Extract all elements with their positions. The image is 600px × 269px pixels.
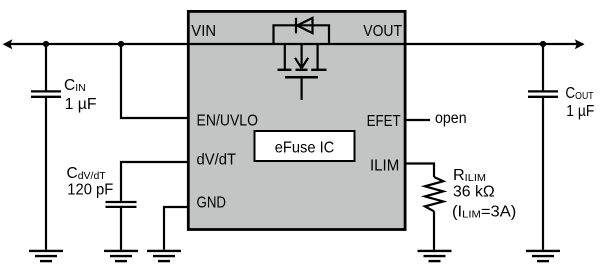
transistor Q1 body contact bar <box>296 69 308 71</box>
transistor Q1 internal FET: body-diode loop wire <box>274 25 330 44</box>
arrow left (input) <box>3 39 13 49</box>
eFuse IC U1 body <box>188 11 405 229</box>
wire C_dV/dT bottom <box>120 208 122 250</box>
resistor R_ILIM <box>425 177 443 211</box>
svg-text:COUT: COUT <box>565 85 593 102</box>
wire C_IN bottom <box>45 98 47 250</box>
wire dV/dT <box>121 162 188 201</box>
svg-text:VOUT: VOUT <box>363 23 402 40</box>
transistor Q1 gate plate <box>285 76 318 79</box>
transistor Q1 drain contact bar <box>278 69 292 71</box>
ground (GND pin) <box>147 251 181 261</box>
svg-text:ILIM: ILIM <box>370 158 399 175</box>
capacitor C_OUT <box>528 90 558 92</box>
svg-text:36 kΩ: 36 kΩ <box>453 184 495 201</box>
wire ILIM pin <box>406 164 434 178</box>
wire EN/UVLO <box>121 44 188 118</box>
IC label box (eFuse IC) <box>255 131 355 161</box>
wire GND pin <box>164 207 188 250</box>
arrow right (output) <box>575 39 585 49</box>
transistor Q1 source contact bar <box>311 69 326 71</box>
svg-text:open: open <box>435 110 467 127</box>
svg-text:CIN: CIN <box>64 77 86 94</box>
node VIN junction (EN/UVLO) <box>118 41 124 47</box>
svg-text:CdV/dT: CdV/dT <box>67 165 107 182</box>
svg-text:GND: GND <box>197 195 227 212</box>
svg-text:EFET: EFET <box>367 113 401 130</box>
ground (C_OUT) <box>526 251 560 261</box>
transistor Q1 source drop <box>317 44 319 70</box>
svg-text:120 pF: 120 pF <box>67 182 113 199</box>
svg-text:dV/dT: dV/dT <box>197 152 237 169</box>
svg-text:VIN: VIN <box>191 23 216 40</box>
svg-text:1 µF: 1 µF <box>65 96 97 113</box>
svg-text:(ILIM=3A): (ILIM=3A) <box>452 204 516 221</box>
wire C_IN top <box>45 44 47 90</box>
svg-text:1 µF: 1 µF <box>566 103 594 120</box>
wire R_ILIM bottom <box>433 211 435 250</box>
diode D1 (body diode) <box>296 18 313 34</box>
wire C_OUT bottom <box>542 98 544 250</box>
transistor Q1 gate lead <box>301 77 303 100</box>
transistor Q1 body arrow <box>295 44 308 68</box>
wire VIN-VOUT rail <box>5 43 583 45</box>
svg-text:RILIM: RILIM <box>453 167 486 184</box>
ground (C_dV/dT) <box>104 251 138 261</box>
capacitor C_IN <box>31 90 61 92</box>
wire C_OUT top <box>542 44 544 90</box>
ground (C_IN) <box>29 251 63 261</box>
ground (R_ILIM) <box>418 251 452 261</box>
node VIN junction (C_IN) <box>43 41 49 47</box>
transistor Q1 drain drop <box>284 44 286 70</box>
wire EFET pin <box>406 119 430 121</box>
node VOUT junction (C_OUT) <box>540 41 546 47</box>
capacitor C_dV/dT <box>106 201 137 203</box>
svg-text:eFuse IC: eFuse IC <box>275 140 335 157</box>
svg-text:EN/UVLO: EN/UVLO <box>197 113 259 130</box>
